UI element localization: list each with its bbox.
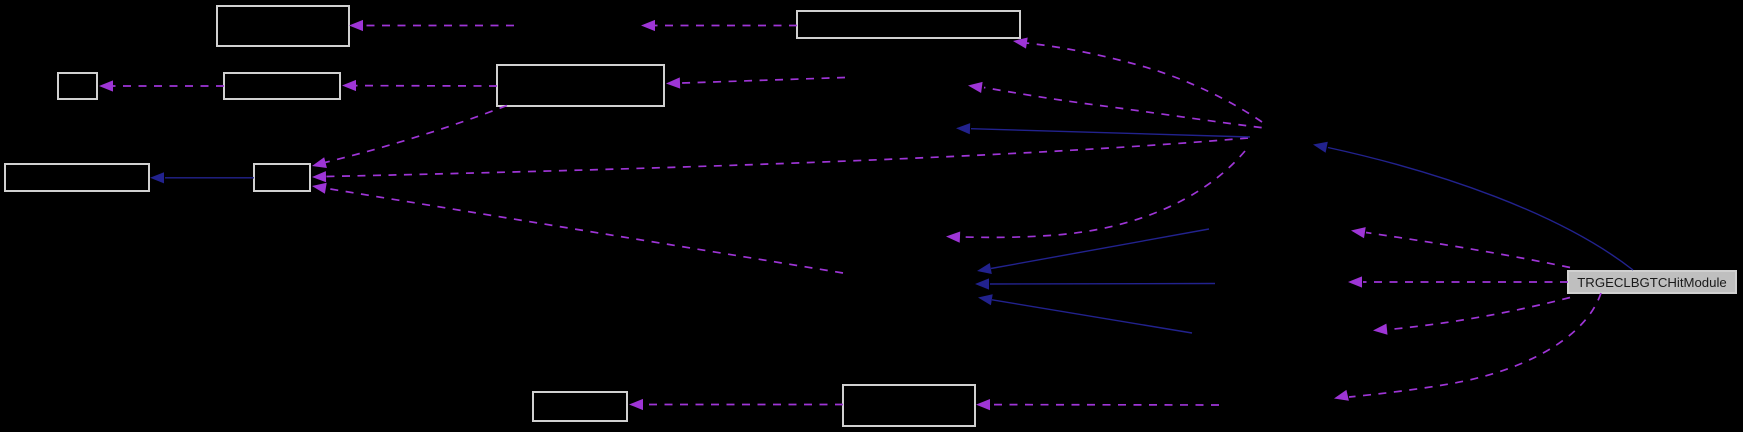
svg-text:TRGECLBGTCHitModule: TRGECLBGTCHitModule [1577, 275, 1727, 290]
